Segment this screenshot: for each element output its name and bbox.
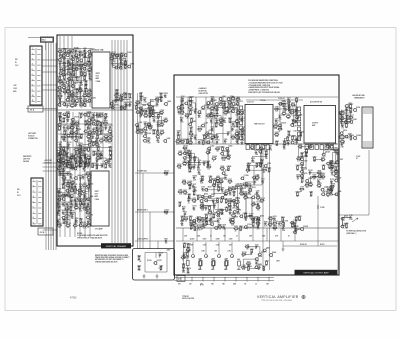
svg-text:D393: D393 bbox=[115, 90, 119, 92]
svg-text:C827: C827 bbox=[236, 203, 240, 205]
svg-text:R161: R161 bbox=[207, 105, 211, 107]
svg-text:27: 27 bbox=[190, 140, 192, 142]
inter-rail labels bbox=[184, 235, 290, 238]
svg-text:D725: D725 bbox=[59, 142, 63, 144]
svg-text:120: 120 bbox=[80, 107, 83, 109]
svg-text:R192: R192 bbox=[197, 225, 201, 227]
svg-text:Q618: Q618 bbox=[189, 216, 193, 218]
svg-text:82: 82 bbox=[309, 149, 311, 151]
svg-text:8: 8 bbox=[32, 85, 33, 87]
svg-text:120: 120 bbox=[67, 121, 70, 123]
C1148 drop line bbox=[317, 196, 319, 246]
svg-text:82: 82 bbox=[100, 159, 102, 161]
svg-text:10: 10 bbox=[32, 95, 34, 97]
svg-text:V980: V980 bbox=[278, 221, 282, 223]
svg-text:120: 120 bbox=[186, 259, 189, 261]
svg-text:Q792: Q792 bbox=[99, 155, 103, 157]
between-block components bbox=[273, 97, 304, 150]
svg-text:NOTES:: NOTES: bbox=[77, 233, 83, 235]
interconnect plug P11 upper bbox=[30, 46, 42, 105]
row end resistor bbox=[164, 172, 167, 174]
svg-text:V772: V772 bbox=[89, 214, 93, 216]
svg-text:L680: L680 bbox=[86, 61, 90, 63]
svg-text:.001: .001 bbox=[58, 227, 61, 229]
svg-text:D133: D133 bbox=[223, 118, 227, 120]
svg-text:VERTICAL PREAMP: VERTICAL PREAMP bbox=[106, 245, 127, 248]
svg-text:D1238: D1238 bbox=[303, 226, 308, 228]
svg-text:.001: .001 bbox=[236, 124, 239, 126]
svg-text:120: 120 bbox=[219, 229, 222, 231]
svg-text:D1208: D1208 bbox=[212, 156, 217, 158]
svg-text:330: 330 bbox=[245, 220, 248, 222]
svg-text:R818: R818 bbox=[150, 101, 154, 103]
svg-text:Q199: Q199 bbox=[148, 106, 152, 108]
svg-text:120: 120 bbox=[207, 169, 210, 171]
svg-text:L786: L786 bbox=[58, 76, 62, 78]
svg-text:L969: L969 bbox=[224, 195, 228, 197]
svg-text:.01: .01 bbox=[207, 154, 209, 156]
svg-text:R1281: R1281 bbox=[78, 137, 83, 139]
row of boxes below output block bbox=[305, 145, 333, 150]
svg-text:L835: L835 bbox=[83, 48, 87, 50]
svg-text:100: 100 bbox=[225, 211, 228, 213]
svg-text:8: 8 bbox=[33, 217, 34, 219]
svg-text:D660: D660 bbox=[190, 118, 194, 120]
svg-text:R1107: R1107 bbox=[217, 183, 222, 185]
svg-text:Q1165: Q1165 bbox=[108, 158, 113, 160]
vertical harness wires bbox=[46, 43, 56, 250]
svg-text:-150V: -150V bbox=[13, 88, 17, 90]
svg-text:C709: C709 bbox=[229, 191, 233, 193]
svg-text:R1132: R1132 bbox=[186, 243, 191, 245]
svg-text:Q721: Q721 bbox=[192, 198, 196, 200]
svg-text:D307: D307 bbox=[203, 239, 207, 241]
inner block driver IC bbox=[245, 105, 273, 144]
svg-text:D1005: D1005 bbox=[296, 174, 301, 176]
svg-text:100: 100 bbox=[71, 170, 74, 172]
svg-text:Q261: Q261 bbox=[236, 97, 240, 99]
delay-line driver block lower bbox=[91, 171, 109, 226]
svg-text:V622: V622 bbox=[71, 166, 75, 168]
svg-text:C193: C193 bbox=[62, 72, 66, 74]
svg-text:100: 100 bbox=[108, 142, 111, 144]
svg-text:120: 120 bbox=[62, 214, 65, 216]
svg-text:L973: L973 bbox=[88, 130, 92, 132]
svg-text:V357: V357 bbox=[200, 203, 204, 205]
svg-text:VERT: VERT bbox=[96, 73, 100, 75]
svg-text:D161: D161 bbox=[71, 54, 75, 56]
svg-text:C1162: C1162 bbox=[119, 106, 124, 108]
svg-text:V198: V198 bbox=[239, 226, 243, 228]
svg-text:330: 330 bbox=[313, 179, 316, 181]
svg-text:Q610: Q610 bbox=[58, 112, 62, 114]
svg-text:L970: L970 bbox=[108, 129, 112, 131]
svg-text:R231: R231 bbox=[69, 188, 73, 190]
svg-text:CONNECTOR: CONNECTOR bbox=[28, 138, 39, 140]
svg-text:LEFT VERT: LEFT VERT bbox=[28, 133, 36, 135]
svg-text:L1191: L1191 bbox=[228, 199, 233, 201]
svg-text:L285: L285 bbox=[226, 151, 230, 153]
svg-text:Q1068: Q1068 bbox=[146, 133, 151, 135]
svg-text:100: 100 bbox=[239, 230, 242, 232]
drops from top edge bbox=[60, 36, 72, 49]
svg-text:R1111: R1111 bbox=[193, 226, 198, 228]
svg-text:C930: C930 bbox=[59, 67, 63, 69]
svg-text:330: 330 bbox=[153, 122, 156, 124]
svg-text:Q1105: Q1105 bbox=[189, 110, 194, 112]
svg-text:L165: L165 bbox=[254, 144, 258, 146]
svg-text:C1297: C1297 bbox=[62, 179, 67, 181]
svg-text:1/2W: 1/2W bbox=[276, 261, 280, 263]
svg-text:82: 82 bbox=[80, 117, 82, 119]
svg-text:27: 27 bbox=[286, 141, 288, 143]
svg-text:82: 82 bbox=[115, 102, 117, 104]
upper preamp components bbox=[57, 48, 96, 109]
svg-text:.001: .001 bbox=[178, 114, 181, 116]
svg-text:L1075: L1075 bbox=[192, 184, 196, 186]
svg-text:R1227: R1227 bbox=[104, 116, 109, 118]
svg-text:C800: C800 bbox=[229, 239, 233, 241]
svg-text:L1203: L1203 bbox=[164, 210, 169, 212]
bus rail lower bbox=[176, 240, 339, 242]
svg-text:D728: D728 bbox=[177, 164, 181, 166]
svg-text:C357: C357 bbox=[256, 174, 260, 176]
svg-text:82: 82 bbox=[76, 93, 78, 95]
svg-text:R591: R591 bbox=[164, 239, 168, 241]
svg-text:82: 82 bbox=[62, 76, 64, 78]
svg-text:27: 27 bbox=[202, 144, 204, 146]
interconnect plug P12 lower bbox=[31, 178, 43, 226]
svg-text:L131: L131 bbox=[193, 187, 197, 189]
svg-text:7: 7 bbox=[33, 212, 34, 214]
svg-text:D669: D669 bbox=[203, 135, 207, 137]
pickoff resistor R1152 bbox=[138, 266, 140, 269]
svg-text:+225V: +225V bbox=[246, 165, 250, 167]
svg-text:Q610: Q610 bbox=[303, 173, 307, 175]
svg-text:Q826: Q826 bbox=[266, 247, 270, 249]
delay line termination network bbox=[135, 92, 172, 144]
svg-text:+ SEE NOTE 2: + SEE NOTE 2 bbox=[198, 93, 208, 95]
svg-text:100: 100 bbox=[214, 118, 217, 120]
svg-text:C681: C681 bbox=[213, 100, 217, 102]
geometry adjust bbox=[340, 215, 353, 230]
svg-text:SEL 1: SEL 1 bbox=[42, 40, 46, 42]
svg-text:V1277: V1277 bbox=[249, 214, 254, 216]
svg-text:27: 27 bbox=[213, 160, 215, 162]
diamond symbol bbox=[302, 295, 305, 298]
svg-text:.01: .01 bbox=[89, 76, 91, 78]
svg-text:D978: D978 bbox=[216, 198, 220, 200]
svg-text:120: 120 bbox=[84, 125, 87, 127]
svg-text:100: 100 bbox=[88, 71, 91, 73]
output bias components bbox=[296, 143, 339, 198]
svg-text:C1056: C1056 bbox=[227, 155, 232, 157]
svg-text:L187: L187 bbox=[80, 63, 84, 65]
svg-text:Q123: Q123 bbox=[62, 152, 66, 154]
svg-text:120: 120 bbox=[79, 93, 82, 95]
svg-text:5: 5 bbox=[32, 69, 33, 71]
feedback connector lines bbox=[245, 184, 262, 186]
svg-text:Q1250: Q1250 bbox=[190, 239, 195, 241]
row end resistor 2 bbox=[164, 211, 167, 213]
svg-text:D262: D262 bbox=[204, 194, 208, 196]
svg-text:+ TRIGGER MODE - FREE RUN: + TRIGGER MODE - FREE RUN bbox=[248, 85, 270, 87]
svg-text:R295: R295 bbox=[180, 118, 184, 120]
svg-text:L561: L561 bbox=[70, 154, 74, 156]
svg-text:330: 330 bbox=[165, 243, 168, 245]
svg-text:L813: L813 bbox=[225, 207, 229, 209]
vertical preamp enclosure box bbox=[57, 35, 133, 246]
svg-text:L909: L909 bbox=[164, 118, 168, 120]
svg-text:C670: C670 bbox=[313, 157, 317, 159]
top rail of output box bbox=[176, 96, 338, 98]
svg-text:C107: C107 bbox=[178, 202, 182, 204]
svg-text:Q981: Q981 bbox=[326, 144, 330, 146]
svg-text:L670: L670 bbox=[77, 175, 81, 177]
svg-text:D266: D266 bbox=[189, 165, 193, 167]
svg-text:V1030: V1030 bbox=[214, 122, 219, 124]
svg-text:120: 120 bbox=[229, 183, 232, 185]
svg-text:D1110: D1110 bbox=[164, 171, 169, 173]
svg-text:330: 330 bbox=[89, 57, 92, 59]
svg-text:D225: D225 bbox=[198, 113, 202, 115]
svg-text:11: 11 bbox=[32, 100, 34, 102]
mid horizontal rail bbox=[57, 109, 133, 111]
svg-text:C678: C678 bbox=[100, 151, 104, 153]
svg-text:Q213: Q213 bbox=[180, 216, 184, 218]
svg-text:C602: C602 bbox=[66, 103, 70, 105]
svg-text:120: 120 bbox=[80, 70, 83, 72]
svg-text:Q1181: Q1181 bbox=[87, 93, 92, 95]
svg-text:L566: L566 bbox=[180, 100, 184, 102]
svg-text:R301: R301 bbox=[91, 49, 95, 51]
svg-text:L157: L157 bbox=[144, 121, 148, 123]
svg-text:Q722: Q722 bbox=[317, 179, 321, 181]
svg-text:R1052: R1052 bbox=[82, 175, 87, 177]
svg-text:C125: C125 bbox=[74, 184, 78, 186]
svg-text:82: 82 bbox=[67, 150, 69, 152]
svg-text:R1192: R1192 bbox=[254, 150, 259, 152]
plug label box J12 bbox=[38, 228, 53, 235]
svg-text:D109: D109 bbox=[275, 141, 279, 143]
svg-text:L872: L872 bbox=[67, 113, 71, 115]
svg-text:R1160: R1160 bbox=[164, 93, 169, 95]
svg-text:R885: R885 bbox=[228, 187, 232, 189]
svg-text:R701: R701 bbox=[131, 63, 135, 65]
svg-text:.001: .001 bbox=[144, 113, 147, 115]
svg-text:D896: D896 bbox=[224, 175, 228, 177]
output transistor row left bbox=[186, 239, 241, 271]
svg-text:L796: L796 bbox=[333, 144, 337, 146]
svg-text:Q580: Q580 bbox=[108, 163, 112, 165]
svg-text:100: 100 bbox=[227, 170, 230, 172]
svg-text:R269: R269 bbox=[272, 252, 276, 254]
svg-text:L228: L228 bbox=[138, 122, 142, 124]
wire rows to main box bbox=[135, 170, 174, 241]
vertical run lower right bbox=[368, 150, 370, 215]
svg-text:V1097: V1097 bbox=[58, 166, 63, 168]
pickoff transistor Q1159 bbox=[153, 261, 157, 265]
svg-text:Q531: Q531 bbox=[62, 193, 66, 195]
svg-text:Q210: Q210 bbox=[273, 216, 277, 218]
svg-text:C895: C895 bbox=[334, 148, 338, 150]
lower preamp components bbox=[56, 148, 94, 230]
svg-text:L727: L727 bbox=[228, 179, 232, 181]
svg-text:.001: .001 bbox=[74, 192, 77, 194]
vertical output amplifier enclosure bbox=[174, 75, 339, 275]
right margin resistors bbox=[328, 149, 343, 196]
svg-text:L101: L101 bbox=[104, 113, 108, 115]
svg-text:R896: R896 bbox=[213, 221, 217, 223]
svg-text:Q962: Q962 bbox=[167, 101, 171, 103]
bus interconnect stubs bbox=[183, 228, 295, 241]
svg-text:D1216: D1216 bbox=[281, 122, 286, 124]
svg-text:D697: D697 bbox=[231, 220, 235, 222]
svg-text:L729: L729 bbox=[294, 220, 298, 222]
svg-text:D1067: D1067 bbox=[215, 140, 220, 142]
black section label bar output amp bbox=[295, 270, 338, 275]
svg-text:Q223: Q223 bbox=[189, 127, 193, 129]
right margin wires in left box bbox=[112, 40, 127, 243]
svg-text:V1008: V1008 bbox=[206, 150, 211, 152]
arrow to deflection bbox=[352, 218, 358, 222]
svg-text:330: 330 bbox=[283, 149, 286, 151]
svg-text:L197: L197 bbox=[224, 199, 228, 201]
svg-text:D1065: D1065 bbox=[75, 76, 80, 78]
svg-text:Q1082: Q1082 bbox=[219, 178, 224, 180]
svg-text:R595: R595 bbox=[281, 217, 285, 219]
svg-text:R322: R322 bbox=[183, 212, 187, 214]
svg-text:D371: D371 bbox=[287, 97, 291, 99]
svg-text:R157: R157 bbox=[247, 261, 251, 263]
svg-text:.001: .001 bbox=[71, 129, 74, 131]
svg-text:.01: .01 bbox=[232, 191, 234, 193]
svg-text:Q269: Q269 bbox=[78, 148, 82, 150]
long vertical rails right box bbox=[263, 148, 270, 270]
svg-text:V207: V207 bbox=[92, 112, 96, 114]
svg-text:120: 120 bbox=[194, 113, 197, 115]
svg-text:27: 27 bbox=[101, 167, 103, 169]
svg-text:.01: .01 bbox=[63, 135, 65, 137]
svg-text:R687: R687 bbox=[218, 225, 222, 227]
svg-text:330: 330 bbox=[112, 56, 115, 58]
output mid extras bbox=[241, 243, 270, 272]
trigger pickoff box bbox=[133, 249, 175, 281]
left edge parts bbox=[177, 154, 193, 218]
svg-text:R610: R610 bbox=[205, 214, 209, 216]
svg-text:D1070: D1070 bbox=[186, 268, 191, 270]
svg-text:VERT SIG OUT: VERT SIG OUT bbox=[254, 124, 265, 126]
svg-text:27: 27 bbox=[74, 188, 76, 190]
svg-text:V1123: V1123 bbox=[273, 221, 278, 223]
svg-text:L279: L279 bbox=[246, 244, 250, 246]
svg-text:D1156: D1156 bbox=[308, 170, 313, 172]
svg-text:R1171: R1171 bbox=[152, 118, 157, 120]
svg-text:R320: R320 bbox=[209, 134, 213, 136]
vertical rect in feedback stage bbox=[246, 198, 252, 216]
svg-text:J11 A: J11 A bbox=[30, 108, 35, 111]
svg-text:V1285: V1285 bbox=[210, 217, 215, 219]
svg-text:120: 120 bbox=[262, 270, 265, 272]
svg-text:100: 100 bbox=[79, 222, 82, 224]
lower output transistor bbox=[353, 136, 357, 140]
svg-text:V297: V297 bbox=[183, 243, 187, 245]
svg-text:L986: L986 bbox=[90, 196, 94, 198]
svg-text:CH 1: CH 1 bbox=[15, 65, 19, 67]
svg-text:L1121: L1121 bbox=[95, 159, 99, 161]
svg-text:Q1161: Q1161 bbox=[160, 110, 165, 112]
delay-line driver block upper bbox=[92, 52, 110, 108]
svg-text:D176: D176 bbox=[244, 216, 248, 218]
svg-text:82: 82 bbox=[242, 256, 244, 258]
svg-text:D815: D815 bbox=[99, 122, 103, 124]
svg-text:R1221: R1221 bbox=[198, 127, 203, 129]
svg-text:L350: L350 bbox=[211, 145, 215, 147]
svg-text:IN: IN bbox=[17, 192, 19, 194]
svg-text:D636: D636 bbox=[61, 102, 65, 104]
svg-text:V305: V305 bbox=[85, 188, 89, 190]
svg-text:120: 120 bbox=[189, 220, 192, 222]
bus rail upper bbox=[176, 227, 339, 229]
power bus labels bbox=[178, 277, 270, 285]
svg-text:.001: .001 bbox=[275, 145, 278, 147]
svg-text:Q1233: Q1233 bbox=[192, 191, 197, 193]
svg-text:.001: .001 bbox=[76, 130, 79, 132]
svg-text:D339: D339 bbox=[287, 102, 291, 104]
svg-text:5: 5 bbox=[33, 201, 34, 203]
svg-text:82: 82 bbox=[300, 191, 302, 193]
svg-text:Q823: Q823 bbox=[275, 132, 279, 134]
svg-text:C717: C717 bbox=[295, 98, 299, 100]
svg-text:.01: .01 bbox=[67, 130, 69, 132]
bus transistor Q1180 bbox=[300, 227, 304, 231]
svg-text:+75V: +75V bbox=[13, 85, 17, 87]
svg-text:82: 82 bbox=[188, 154, 190, 156]
svg-text:D937: D937 bbox=[211, 127, 215, 129]
svg-text:120: 120 bbox=[215, 127, 218, 129]
resistor R1196 bbox=[266, 261, 268, 264]
harness taps bbox=[43, 60, 58, 230]
svg-text:R1181: R1181 bbox=[242, 252, 247, 254]
svg-text:C701: C701 bbox=[187, 194, 191, 196]
svg-text:.01: .01 bbox=[182, 259, 184, 261]
svg-text:D835: D835 bbox=[221, 166, 225, 168]
svg-text:27: 27 bbox=[88, 227, 90, 229]
svg-text:.01: .01 bbox=[241, 122, 243, 124]
svg-text:Q967: Q967 bbox=[212, 178, 216, 180]
svg-text:D299: D299 bbox=[216, 239, 220, 241]
svg-text:C1159: C1159 bbox=[247, 163, 252, 165]
svg-text:L592: L592 bbox=[222, 105, 226, 107]
svg-text:.01: .01 bbox=[211, 269, 213, 271]
row end capacitor bbox=[164, 240, 166, 242]
svg-text:D536: D536 bbox=[303, 169, 307, 171]
svg-text:R298: R298 bbox=[66, 101, 70, 103]
svg-text:82: 82 bbox=[274, 225, 276, 227]
power bus pair bbox=[174, 277, 274, 279]
svg-text:330: 330 bbox=[217, 191, 220, 193]
svg-text:R1201: R1201 bbox=[320, 244, 325, 246]
svg-text:R1063: R1063 bbox=[197, 216, 202, 218]
svg-text:V928: V928 bbox=[58, 61, 62, 63]
svg-text:VERT: VERT bbox=[95, 191, 99, 193]
svg-text:D1209: D1209 bbox=[188, 181, 193, 183]
margin components upper bbox=[109, 52, 134, 70]
svg-text:27: 27 bbox=[252, 206, 254, 208]
svg-text:27: 27 bbox=[189, 189, 191, 191]
svg-text:27: 27 bbox=[236, 236, 238, 238]
svg-text:L237: L237 bbox=[139, 92, 143, 94]
